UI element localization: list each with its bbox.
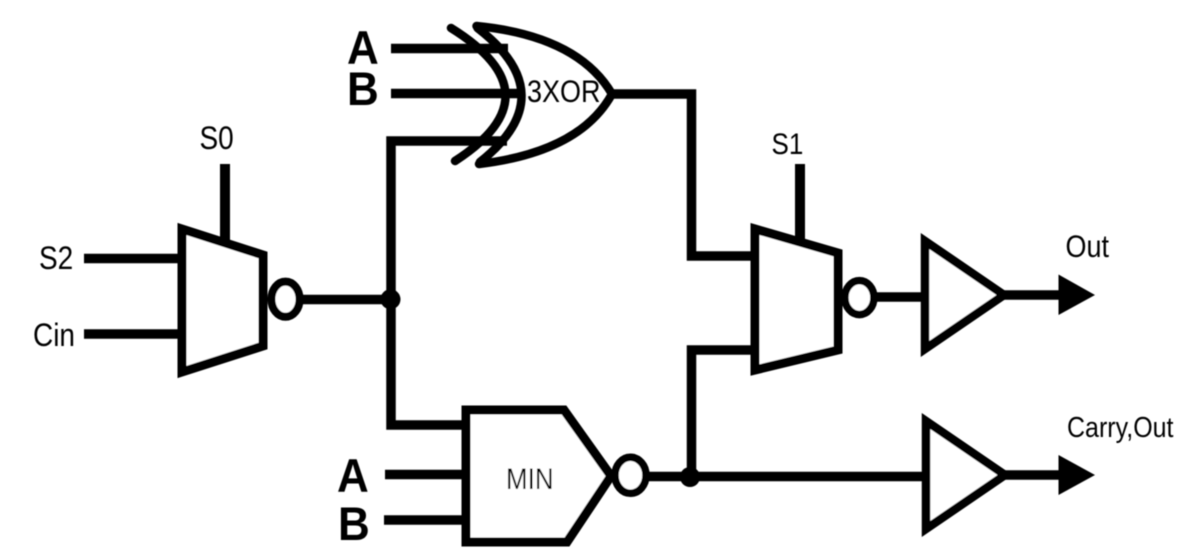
svg-text:B: B [347, 62, 379, 115]
svg-text:B: B [338, 497, 370, 550]
svg-text:A: A [337, 449, 369, 502]
svg-text:S0: S0 [200, 121, 234, 156]
svg-text:S2: S2 [39, 241, 73, 276]
svg-text:Out: Out [1066, 230, 1109, 264]
svg-text:Carry,Out: Carry,Out [1067, 411, 1174, 443]
svg-text:S1: S1 [772, 127, 804, 160]
svg-text:Cin: Cin [33, 318, 75, 353]
svg-text:MIN: MIN [506, 462, 554, 495]
svg-text:3XOR: 3XOR [527, 75, 600, 109]
